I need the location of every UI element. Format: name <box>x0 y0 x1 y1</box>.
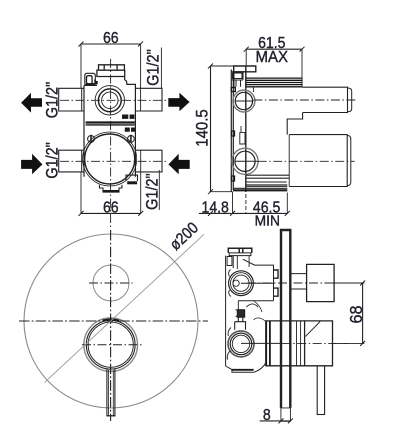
bottom cylinder attach vertical <box>288 135 290 187</box>
extension dashed x=245.9 <box>245 194 247 214</box>
valve body in view4: top port inner <box>233 275 249 291</box>
valve body in view4: top port ring <box>231 273 252 294</box>
check valve plug dark bottom <box>86 83 95 85</box>
side top port center solid line <box>235 100 253 102</box>
extension line right of bottom-right G1/2 label <box>158 170 160 210</box>
valve body in view4: left small rect <box>227 257 232 266</box>
ticks 14.8/46.5 <box>208 211 290 216</box>
hex cap top of cartridge <box>99 65 125 70</box>
mid arch foot <box>246 304 258 307</box>
port bottom-right rect <box>135 150 162 172</box>
side top port circle <box>235 92 252 109</box>
depth ribs <box>246 78 303 87</box>
check valve plug inner oval <box>87 76 93 84</box>
dimension 61.5: extension right <box>301 49 303 87</box>
valve body in view4: screw dot <box>233 280 239 286</box>
dimension 66 top: extension lines <box>81 44 141 111</box>
mid screw block <box>237 310 244 317</box>
svg-text:G1/2": G1/2" <box>43 142 61 178</box>
svg-text:G1/2": G1/2" <box>144 173 162 209</box>
bottom tab center dark base <box>103 190 120 193</box>
dimension 68: extension bottom <box>333 342 365 344</box>
valve body in view4: lower port inner <box>232 335 249 352</box>
screw right <box>127 136 134 143</box>
top cylinder end cap <box>348 88 352 112</box>
lever side <box>317 366 324 415</box>
svg-text:MIN: MIN <box>255 213 280 230</box>
bottom tab center <box>99 185 122 191</box>
handle top dark arc <box>103 320 120 321</box>
diverter centerline <box>89 282 133 284</box>
centerline vertical V1 <box>110 59 112 229</box>
arrow outlet top-left (pointing left) <box>21 93 42 113</box>
top cylinder <box>303 87 348 112</box>
bottom flange lower lines <box>233 182 287 188</box>
dimension 14.8: line <box>199 212 232 214</box>
dark mark mid flange <box>232 131 235 136</box>
centerline horizontal upper ports V1 <box>60 99 167 101</box>
svg-text:66: 66 <box>103 199 119 217</box>
side top port circle fuzzy <box>233 90 255 112</box>
knob stem <box>290 274 306 289</box>
extension line right of top-right G1/2 label <box>160 48 162 89</box>
dimension 68: extension top <box>334 282 364 284</box>
dimension 140.5: ticks <box>208 64 213 195</box>
lever side bottom cap <box>317 414 324 416</box>
handle centerline <box>82 344 144 346</box>
handle taper diagonal <box>306 322 321 337</box>
trim plate circle <box>24 234 198 408</box>
valve body in view4: mid section details <box>238 300 273 302</box>
dimension 140.5: top extension <box>211 65 234 67</box>
handle centerline dash part <box>282 342 348 344</box>
body outline right of top circle <box>253 87 302 92</box>
body bottom dark line <box>232 369 254 371</box>
svg-text:140.5: 140.5 <box>194 109 212 147</box>
svg-text:14.8: 14.8 <box>201 199 228 217</box>
cartridge circle middle <box>98 89 121 112</box>
bottom cylinder end cap <box>347 135 351 185</box>
port bottom-left rect <box>59 150 84 172</box>
bottom cylinder <box>289 135 347 187</box>
bottom cylinder centerline <box>258 160 355 162</box>
diameter leader diagonal <box>45 234 205 382</box>
dimension 66 bottom: extension lines <box>81 150 141 213</box>
bottom flange mid line <box>246 185 287 187</box>
svg-text:G1/2": G1/2" <box>144 49 162 85</box>
MIN embossed mark <box>125 128 135 132</box>
right step between cylinders <box>287 113 302 135</box>
knob solid center line in body <box>241 282 274 284</box>
body bottom outline <box>226 362 267 372</box>
circle mount lobes view4 <box>229 270 231 297</box>
dimension 61.5: extension left <box>245 49 247 66</box>
diverter knob side <box>307 264 335 301</box>
escutcheon inner verticals <box>297 321 301 366</box>
dimension 140.5: bottom extension <box>210 191 233 193</box>
lever inner lines <box>109 370 114 416</box>
valve body in view4: left outline <box>226 256 234 366</box>
cartridge circle outer <box>95 86 124 115</box>
cartridge circle inner <box>102 92 118 108</box>
lever bottom cap <box>107 415 116 417</box>
dimension 66 top: line <box>81 43 141 45</box>
wall plate bottom thin part <box>281 408 291 421</box>
top cylinder centerline <box>253 99 356 101</box>
wall plate top cap <box>281 229 290 231</box>
side bottom port circle fuzzy <box>232 148 258 174</box>
svg-text:68: 68 <box>346 305 366 323</box>
valve body in view4: stem flange tabs <box>274 270 279 296</box>
dark mark below ribs <box>231 88 235 92</box>
svg-text:66: 66 <box>103 29 119 47</box>
port top-right rect <box>135 88 162 111</box>
valve body in view4: top port circle outer <box>229 271 254 296</box>
bottom flange lines <box>246 175 289 178</box>
valve body in view4: top cap <box>228 248 252 253</box>
dimension 8: line <box>260 420 291 422</box>
check valve plug right dark mark <box>95 80 97 85</box>
side body top cap <box>234 66 256 72</box>
centerline horizontal lower ports V1 <box>60 160 167 162</box>
body waist right arcs <box>254 301 267 322</box>
handle body side <box>305 321 333 366</box>
mid separator band <box>86 121 135 123</box>
dimension 66 bottom: line <box>81 212 141 214</box>
dimension 46.5: line <box>233 212 288 214</box>
latch details mid left <box>240 126 245 144</box>
side bottom port circle <box>235 151 255 171</box>
dimension 66 bottom: end ticks <box>79 211 144 216</box>
valve body in view4: lower port circle <box>230 333 252 355</box>
extension line x=232.5 <box>232 192 234 214</box>
check valve stack side <box>235 310 246 330</box>
diverter knob circle <box>93 265 129 301</box>
dark mark low flange <box>232 176 235 181</box>
valve body in view4: lower port circle fuzzy <box>228 331 254 357</box>
port joint lines left top <box>81 88 83 172</box>
escutcheon behind plate <box>266 321 305 366</box>
trim horizontal centerline <box>19 320 208 322</box>
dimension 68: line <box>362 283 364 343</box>
arrow outlet top-right (pointing right) <box>168 93 189 111</box>
arrow inlet bottom-left (pointing right) <box>21 154 42 175</box>
dimension 61.5: line <box>246 48 302 50</box>
valve body in view4: upper-right outline <box>243 259 274 301</box>
bottom dark base line <box>233 189 287 191</box>
check valve plug left shoulder <box>85 73 96 85</box>
svg-text:MAX: MAX <box>256 49 289 66</box>
vertical stems under cap view4 <box>237 256 249 313</box>
mixer control circle main <box>85 134 135 184</box>
trim vertical centerline <box>110 230 112 421</box>
arrow inlet bottom-right (pointing left) <box>168 154 189 175</box>
dimension 66 top: end ticks <box>79 42 144 47</box>
knob centerline <box>247 282 348 284</box>
dimension 140.5: vertical line <box>210 66 212 192</box>
mixer control circle outer thin <box>83 132 137 186</box>
dimension 68: ticks <box>360 281 365 346</box>
handle ring inner <box>88 322 133 367</box>
wall plate side <box>281 230 290 408</box>
lever outline <box>107 369 115 416</box>
dimension 8: ticks <box>279 418 293 423</box>
escutcheon back edge dark <box>266 321 270 366</box>
svg-text:G1/2": G1/2" <box>43 82 61 118</box>
bottom tab right <box>126 175 138 181</box>
port top-left rect <box>59 88 84 111</box>
handle ring outer <box>86 320 135 369</box>
side body front face line <box>245 66 247 192</box>
bottom tab right dark band <box>127 181 137 184</box>
valve body front outline <box>84 84 135 176</box>
svg-text:8: 8 <box>263 406 271 424</box>
screw left <box>88 136 95 143</box>
dimension 61.5: ticks <box>244 47 305 52</box>
handle ring fuzzy <box>84 318 138 372</box>
side body check valve stack <box>231 72 245 87</box>
extension line x=287.3 <box>286 193 288 214</box>
handle centerline <box>241 342 282 344</box>
lower left lobes <box>227 328 231 360</box>
side bottom port center solid line <box>235 160 258 162</box>
MAX embossed mark <box>122 114 134 118</box>
side body left flange strip <box>231 70 233 193</box>
